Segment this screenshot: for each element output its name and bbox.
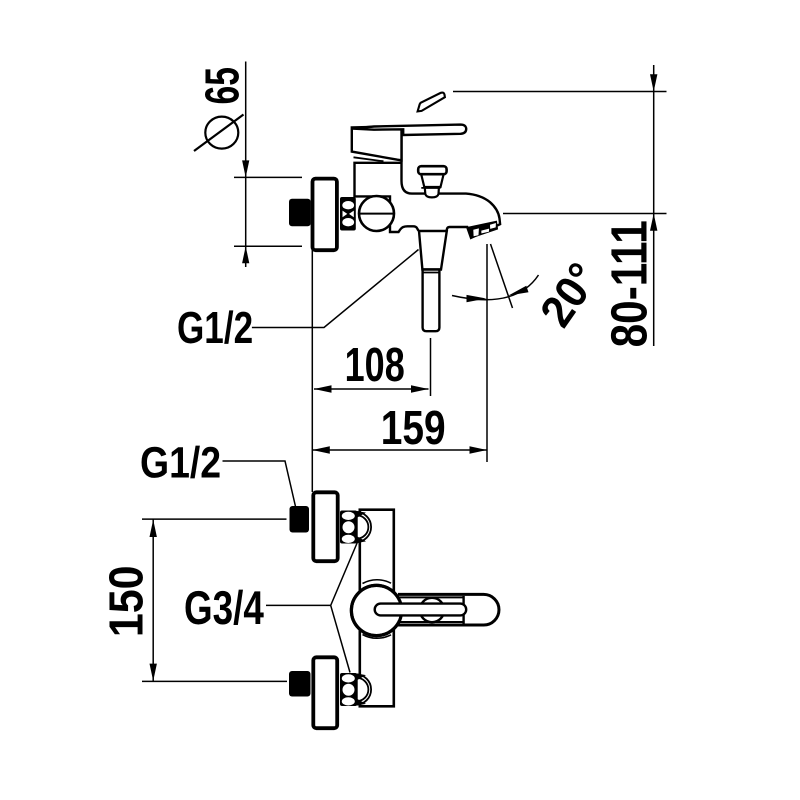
mixer sphere body [359,196,394,231]
wall connection nut (top view) [289,199,311,227]
angle 20 degree reference slant line [452,244,539,308]
pivot circle [420,598,444,622]
shower outlet joint line [423,272,440,274]
dimension 108 arrowheads [314,385,429,392]
body plate [360,510,394,707]
dimension Ø65 vertical dimension line [245,62,247,268]
svg-text:159: 159 [381,402,446,455]
lower connection nut [289,671,311,697]
leader G3/4 [266,542,358,673]
union bowtie [343,211,348,218]
lever mid lines [399,596,464,598]
dimension 108 line [312,247,430,492]
dimension Ø65 arrowheads [242,160,249,263]
valve thick circle [351,585,401,635]
shower outlet tube [423,270,440,332]
handle lever bar [352,125,466,135]
union lower ring [342,218,354,226]
svg-text:G1/2: G1/2 [140,438,221,487]
aerator left facet [473,228,479,236]
dimension 80-111 vertical line [453,65,667,346]
handle wedge line [354,157,384,161]
sphere seam line [360,213,394,215]
angle 20 degree arc arrowheads [467,286,529,303]
handle raised position indicator [418,93,445,112]
aerator band [468,221,499,239]
dimension 80-111 arrowheads [650,74,657,230]
aerator right facet [490,223,496,229]
valve circle re-stroke [351,585,401,635]
svg-text:G3/4: G3/4 [184,582,264,635]
wall flange (top view) [313,179,337,251]
diverter knob step line [421,187,440,189]
leader G1/2 (top view) [252,250,419,328]
upper union block [340,511,357,544]
leader G1/2 (bottom view) [223,461,296,507]
svg-text:80-111: 80-111 [601,220,658,347]
aerator slot [481,229,489,234]
dimension Ø65 extension lines [234,177,302,246]
union upper ring [342,201,354,209]
handle body [352,126,402,160]
dimension 150 line [142,519,287,681]
upper eccentric boss arcs [356,512,371,542]
lower eccentric boss arcs [356,674,371,704]
diverter knob taper [421,174,443,187]
eccentric union block (top view) [340,197,356,231]
dimension 150 arrowheads [150,520,157,681]
diverter knob stub [425,188,439,198]
shower outlet cone [419,231,447,270]
lower wall flange (bottom view) [313,657,337,728]
diameter symbol [194,115,244,152]
lever outer capsule [398,594,499,625]
upper connection nut [290,506,310,533]
spout body and neck [355,135,501,238]
dimension 159 arrowheads [312,446,487,453]
diverter knob cap [418,166,446,174]
svg-text:65: 65 [196,67,249,104]
dome thin arcs around valve [363,580,392,639]
svg-text:108: 108 [345,339,405,392]
upper wall flange (bottom view) [313,492,337,561]
svg-text:150: 150 [101,565,154,637]
dimension 159 line [312,244,487,462]
lower union block [340,673,357,706]
svg-text:G1/2: G1/2 [177,302,253,353]
lever divider [462,596,464,624]
lever stem capsule [375,604,467,616]
